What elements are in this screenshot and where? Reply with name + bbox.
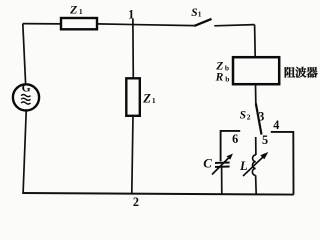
svg-text:1: 1 [128,7,134,21]
bottom wire (node 2 rail) [22,193,294,195]
svg-text:G: G [22,82,31,95]
svg-text:C: C [203,156,212,171]
svg-text:4: 4 [273,118,279,132]
ac source G [13,82,39,111]
svg-text:3: 3 [258,109,264,123]
svg-text:1: 1 [198,10,202,19]
svg-text:S: S [191,7,197,19]
terminal 4 bracket wire [271,132,294,195]
svg-text:1: 1 [152,96,156,105]
switch S1 blade [194,19,211,26]
svg-text:L: L [239,159,248,173]
wire node 1 down to shunt resistor [132,24,134,78]
svg-text:b: b [225,74,229,83]
wire below source to bottom-left corner [23,111,26,192]
wire inductor bottom to rail [255,175,258,194]
label Z1 (shunt) [142,91,156,105]
inductor L variable arrow [243,152,268,176]
svg-text:S: S [240,109,246,121]
svg-text:2: 2 [133,195,139,207]
label Z1 (series) [69,2,83,16]
wire resistor to S1 pivot [97,24,194,26]
svg-text:Z: Z [69,2,78,16]
wire wave trap bottom to node 3 [255,85,257,104]
capacitor C variable arrow [212,154,233,175]
svg-text:b: b [225,64,229,73]
wire S1 to top-right corner [214,25,254,26]
svg-text:5: 5 [262,133,268,147]
svg-text:R: R [215,72,224,84]
wire shunt resistor down to node 2 [132,116,133,194]
wire top-left horizontal [23,23,61,25]
label S1 [191,7,202,19]
svg-text:2: 2 [247,113,251,122]
wire top-right corner down to wave trap [254,25,257,57]
terminal 6 bracket wire [221,131,241,161]
switch S2 blade (node 3 to 5) [256,103,262,134]
node 1 tick [132,19,134,24]
label Zb [215,61,229,73]
wire left vertical (source branch) [23,24,26,84]
resistor Z1 (shunt, vertical box) [126,78,140,116]
wire capacitor bottom to rail [221,168,223,195]
wire node 5 down to inductor [255,137,257,155]
svg-text:1: 1 [79,7,83,16]
label Rb [215,72,230,84]
svg-text:6: 6 [232,132,238,146]
resistor Z1 (series, horizontal box) [61,18,97,29]
label 阻波器 (wave trap) [285,67,318,78]
wave trap box U1 [233,57,279,84]
label S2 [240,109,251,121]
inductor L coil [252,155,256,175]
svg-text:Z: Z [142,91,151,105]
capacitor C plates [215,163,230,167]
